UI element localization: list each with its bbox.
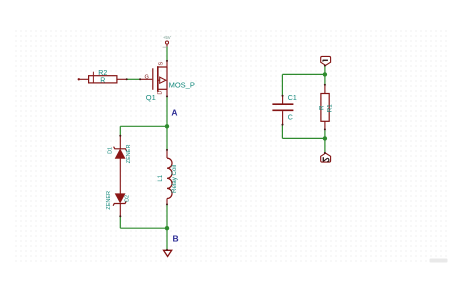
svg-text:R: R bbox=[318, 105, 325, 110]
svg-text:R: R bbox=[100, 78, 105, 85]
svg-text:G: G bbox=[145, 74, 149, 80]
svg-text:L1: L1 bbox=[158, 174, 164, 181]
svg-text:C: C bbox=[288, 114, 293, 121]
svg-text:D2: D2 bbox=[124, 195, 130, 202]
svg-text:MOS_P: MOS_P bbox=[169, 80, 195, 89]
svg-text:B: B bbox=[173, 234, 179, 244]
svg-text:R1: R1 bbox=[327, 104, 334, 112]
svg-text:Q1: Q1 bbox=[146, 93, 156, 102]
svg-text:ZENER: ZENER bbox=[126, 145, 132, 164]
svg-text:R2: R2 bbox=[98, 70, 107, 77]
svg-text:ZENER: ZENER bbox=[106, 191, 112, 210]
svg-text:D1: D1 bbox=[108, 147, 114, 154]
svg-text:+5V: +5V bbox=[163, 35, 171, 40]
svg-text:A: A bbox=[171, 108, 177, 118]
svg-text:Relay Coil: Relay Coil bbox=[171, 165, 178, 193]
svg-text:S: S bbox=[158, 61, 164, 65]
svg-text:D: D bbox=[158, 91, 164, 95]
svg-text:C1: C1 bbox=[288, 95, 297, 102]
